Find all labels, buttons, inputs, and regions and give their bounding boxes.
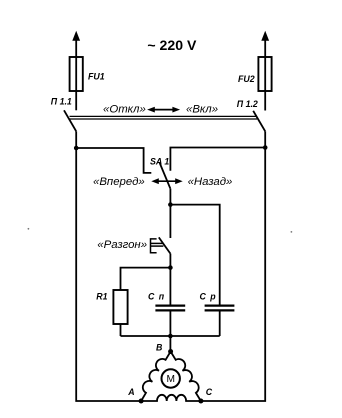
svg-text:С: С — [200, 291, 207, 301]
svg-text:FU1: FU1 — [88, 72, 105, 82]
svg-text:С: С — [206, 387, 213, 397]
left rail wire to A — [76, 148, 141, 401]
motor winding A-C — [141, 395, 201, 401]
label С п — [148, 291, 165, 301]
svg-text:FU2: FU2 — [238, 74, 255, 84]
node A motor terminal — [139, 399, 144, 404]
wire left node to SA1 left contact — [76, 148, 151, 173]
switch П1 insulating tie bar — [70, 116, 258, 119]
wire pole1 blade to node — [75, 131, 77, 148]
wire right node to SA1 common — [170, 148, 265, 171]
SA1 toggle direction arrow — [151, 178, 182, 184]
switch SA1 blade — [160, 163, 171, 189]
push-button «Разгон» actuator bracket — [151, 239, 164, 253]
wire L1 top lead with arrow — [72, 31, 80, 57]
motor winding B-A — [141, 352, 171, 402]
junction node left — [74, 146, 79, 151]
switch П1 pole 1 blade — [64, 110, 76, 131]
svg-text:«Разгон»: «Разгон» — [97, 239, 147, 251]
wire node to R1 top — [121, 268, 171, 290]
motor winding B-C — [171, 352, 201, 402]
svg-text:С: С — [148, 291, 155, 301]
svg-text:П 1.2: П 1.2 — [237, 99, 258, 109]
wire Cп bottom to bottom bus — [169, 312, 171, 337]
wire button to node — [169, 254, 171, 268]
wire R1 bottom to bottom bus — [120, 324, 122, 336]
wire pole2 blade to node — [264, 131, 266, 147]
wire node to Cp branch — [170, 205, 219, 305]
toggle direction arrow (Откл-Вкл) — [147, 107, 180, 113]
wire node to button upper contact — [169, 205, 171, 238]
junction node above Cп — [168, 265, 173, 270]
svg-text:M: M — [166, 374, 175, 385]
wire from FU1 to switch contact П1.1 — [75, 91, 77, 110]
svg-text:А: А — [127, 387, 134, 397]
fuse FU1 — [70, 57, 83, 91]
svg-text:р: р — [209, 291, 216, 301]
svg-text:«Откл»: «Откл» — [103, 104, 146, 116]
push-button «Разгон» blade — [159, 237, 171, 253]
svg-text:п: п — [159, 291, 165, 301]
wire Ср bottom to bottom bus — [219, 312, 221, 337]
wire bus to motor terminal B — [169, 336, 171, 352]
switch П1 pole 2 blade — [253, 111, 265, 132]
wire SA1 pivot to node — [169, 189, 171, 205]
svg-text:«Вперед»: «Вперед» — [93, 176, 145, 188]
fuse FU2 — [258, 57, 271, 91]
svg-text:П 1.1: П 1.1 — [51, 96, 72, 106]
node B motor terminal — [168, 349, 173, 354]
label С р — [200, 291, 217, 301]
wire from FU2 to switch contact П1.2 — [264, 91, 266, 111]
bottom bus wire R1-Cп-Ср — [121, 335, 220, 337]
speck 2 — [291, 231, 293, 233]
wire L2 top lead with arrow — [261, 31, 269, 57]
resistor R1 — [113, 290, 127, 324]
wire node to Cп top — [169, 268, 171, 305]
svg-text:«Вкл»: «Вкл» — [186, 104, 218, 116]
junction node SA1 out — [168, 202, 173, 207]
junction node right — [263, 145, 268, 150]
node C motor terminal — [198, 399, 203, 404]
svg-text:«Назад»: «Назад» — [188, 176, 233, 188]
speck 1 — [28, 228, 30, 230]
motor M1 circle — [162, 369, 180, 387]
svg-text:R1: R1 — [96, 292, 107, 302]
svg-text:~ 220 V: ~ 220 V — [147, 37, 197, 53]
right rail wire to C — [201, 148, 265, 402]
capacitor Ср — [205, 306, 235, 311]
junction node B bus — [168, 334, 173, 339]
svg-text:В: В — [156, 343, 163, 353]
capacitor Cп — [155, 306, 185, 311]
